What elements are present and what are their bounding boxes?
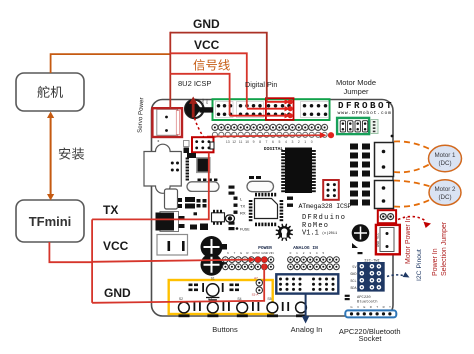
svg-text:APC220: APC220 — [357, 296, 371, 300]
DFROBOT logo — [338, 100, 392, 116]
wire: bottom bus vertical — [91, 219, 93, 302]
svg-text:R: R — [370, 305, 372, 309]
digital header pins group4 — [301, 102, 329, 118]
via column right of qfp — [229, 186, 294, 231]
svg-text:S2-A: S2-A — [252, 293, 259, 297]
svg-text:R: R — [383, 305, 385, 309]
red arrows onto digital pins — [230, 99, 293, 118]
wire: TX — [92, 153, 209, 220]
pin number silk under circle rows — [226, 140, 313, 144]
svg-text:DIGITAL: DIGITAL — [264, 146, 284, 152]
svg-text:11: 11 — [239, 140, 243, 144]
board silk text — [299, 203, 352, 238]
wire: GND bottom — [92, 264, 264, 303]
misc small parts left of 8U2 — [171, 141, 218, 182]
svg-text:VCC: VCC — [194, 38, 220, 52]
svg-text:SCL: SCL — [350, 280, 356, 284]
svg-text:TX: TX — [240, 204, 245, 209]
svg-text:VCC: VCC — [103, 239, 129, 253]
motor mode jumper green box — [337, 118, 393, 138]
svg-text:12: 12 — [232, 140, 236, 144]
right side transistor cluster 1 — [350, 144, 370, 177]
electrolytic cap near servo power — [185, 100, 213, 118]
gear logo — [276, 224, 293, 241]
svg-text:Selection Jumper: Selection Jumper — [441, 221, 448, 276]
power+analog pin center dots — [224, 259, 337, 268]
svg-text:Motor 1: Motor 1 — [435, 152, 457, 159]
svg-text:4: 4 — [285, 140, 287, 144]
label 信号线 (signal wire) — [193, 59, 229, 70]
buttons yellow box — [169, 280, 273, 314]
motor terminal block 1 — [375, 143, 394, 177]
svg-text:8: 8 — [259, 140, 261, 144]
wire: tfmini stub — [49, 242, 92, 262]
svg-text:5: 5 — [278, 140, 280, 144]
silk GND VCC labels left of digital header — [202, 98, 209, 104]
svg-text:(DC): (DC) — [438, 194, 451, 201]
svg-text:E: E — [363, 305, 365, 309]
wire: VCC top red — [170, 53, 247, 108]
motor power jumper red box (small) — [378, 210, 396, 223]
label 舵机 (servo) — [37, 86, 63, 98]
svg-text:Motor Power In: Motor Power In — [405, 216, 412, 264]
svg-text:Power In: Power In — [432, 248, 439, 276]
svg-text:Jumper: Jumper — [343, 87, 369, 96]
digital header pins group1 — [216, 102, 234, 118]
digital header pins group2 — [237, 102, 264, 118]
QFP chip outline — [249, 193, 283, 226]
svg-text:VIN: VIN — [269, 251, 274, 255]
svg-text:S1: S1 — [211, 277, 215, 281]
red highlight box on digital pins — [266, 98, 294, 120]
svg-text:G: G — [350, 305, 352, 309]
svg-text:I2C Pinout: I2C Pinout — [416, 249, 423, 281]
svg-text:13: 13 — [226, 140, 230, 144]
svg-text:GND VCC: GND VCC — [377, 233, 381, 247]
I2C header navy box — [350, 252, 384, 291]
power pin tiny labels — [227, 251, 324, 255]
wire: signal line red to board — [170, 74, 229, 115]
TX RX L leds silk — [234, 197, 246, 216]
svg-text:GND: GND — [350, 273, 356, 277]
svg-text:FUSE: FUSE — [240, 228, 250, 232]
ATmega328 ICSP red header — [323, 180, 339, 200]
svg-text:T: T — [389, 305, 391, 309]
female header circle row B (digital) — [212, 132, 327, 137]
svg-text:1: 1 — [304, 140, 306, 144]
svg-text:GND: GND — [261, 251, 269, 255]
svg-text:S3: S3 — [208, 297, 212, 301]
servo box 舵机 — [16, 73, 84, 111]
A7 / S2-A small circles — [252, 276, 263, 297]
svg-text:A7: A7 — [254, 276, 258, 280]
board outline — [152, 100, 394, 317]
svg-text:V1.1: V1.1 — [302, 230, 319, 238]
svg-text:SDA: SDA — [350, 287, 357, 291]
motor terminal block 2 — [375, 181, 394, 209]
svg-text:8U2 ICSP: 8U2 ICSP — [178, 79, 211, 88]
svg-text:V: V — [357, 305, 359, 309]
wire: GND top dark red — [170, 33, 266, 101]
svg-text:3: 3 — [291, 140, 293, 144]
motor power in red box (large) — [376, 225, 400, 254]
svg-text:2: 2 — [298, 140, 300, 144]
big ATmega328 smd chip — [281, 148, 316, 194]
analog in navy box — [276, 274, 338, 293]
svg-text:0: 0 — [311, 140, 313, 144]
caps row mid-left — [190, 212, 208, 230]
svg-text:10: 10 — [245, 140, 249, 144]
fiducial dots mid — [230, 227, 250, 231]
SOIC8 near TX corner — [212, 210, 225, 225]
svg-text:Socket: Socket — [359, 334, 383, 343]
buttons bottom row — [179, 297, 307, 317]
red dotted arrow power in selection — [398, 216, 425, 220]
electrolytic caps bottom-left pair — [201, 236, 228, 276]
svg-text:Bluetooth: Bluetooth — [357, 300, 378, 305]
parts left of S1 — [189, 283, 205, 292]
right side transistor cluster 2 — [350, 182, 370, 206]
svg-text:(DC): (DC) — [438, 160, 451, 167]
USB connector — [144, 140, 181, 193]
svg-text:Buttons: Buttons — [212, 325, 238, 334]
svg-text:TFmini: TFmini — [29, 214, 72, 229]
red filled power pins 5V GND — [255, 257, 261, 263]
svg-text:(c)2011: (c)2011 — [322, 231, 337, 236]
DC power jack — [157, 235, 188, 256]
wire: VCC bottom with arrow — [92, 260, 250, 262]
svg-text:RX: RX — [240, 211, 246, 216]
navy arrow Analog In — [305, 294, 307, 317]
crystal oval — [187, 176, 274, 192]
parts right of S1 — [222, 283, 239, 292]
svg-text:GND: GND — [193, 17, 220, 31]
label 安装 (mount) — [59, 147, 84, 159]
svg-text:S2: S2 — [179, 297, 183, 301]
8U2 ICSP red header (2x3) — [192, 137, 214, 152]
female header circle row A (digital) — [212, 124, 328, 130]
svg-text:6: 6 — [272, 140, 274, 144]
orange dashed leaders to motors — [394, 141, 432, 206]
svg-text:DFRduino: DFRduino — [302, 214, 345, 222]
big power transistor — [156, 212, 185, 232]
female header row A center dots — [214, 126, 326, 128]
APC220 silk — [357, 296, 378, 305]
digital header pins group3 (highlighted) — [267, 104, 291, 116]
svg-text:TX: TX — [103, 203, 118, 217]
8U2 icsp red arrow + dotted leader — [189, 97, 204, 138]
digital header green box — [213, 99, 330, 120]
wire: servo signal orange from box top — [51, 54, 170, 73]
svg-text:VCC: VCC — [206, 99, 209, 104]
electrolytic cap right — [352, 224, 370, 248]
TFmini box — [16, 200, 84, 242]
voltage regulator — [165, 153, 207, 209]
APC220 socket blue — [345, 305, 396, 317]
8U2 usb chip — [197, 158, 210, 173]
motor 2 circle — [429, 180, 461, 205]
svg-text:7: 7 — [266, 140, 268, 144]
svg-text:ATmega328 ICSP: ATmega328 ICSP — [299, 203, 352, 210]
svg-text:Digital Pin: Digital Pin — [245, 80, 277, 89]
servo power red box — [152, 108, 182, 137]
svg-text:Motor Mode: Motor Mode — [336, 78, 376, 87]
label Power In Selection Jumper (rotated) — [432, 221, 448, 276]
orange double arrow between boxes — [47, 112, 54, 201]
small cap pair right — [226, 215, 235, 222]
navy dashed arrow I2C — [387, 275, 405, 277]
svg-text:T: T — [376, 305, 378, 309]
wire: vertical bundle bus top — [169, 32, 171, 108]
svg-text:S5: S5 — [267, 297, 271, 301]
motor 1 circle — [429, 145, 462, 171]
svg-text:9: 9 — [253, 140, 255, 144]
svg-text:Motor 2: Motor 2 — [435, 186, 457, 193]
wire: TX continuation to RX pin with arrow — [207, 132, 334, 138]
svg-text:Analog In: Analog In — [291, 325, 323, 334]
svg-text:5V: 5V — [256, 251, 260, 255]
svg-text:GND: GND — [104, 286, 131, 300]
button S1 top — [206, 277, 219, 300]
svg-text:www.DFRobot.com: www.DFRobot.com — [338, 110, 392, 116]
small pads left of APC220 silk — [345, 295, 350, 301]
power+analog female pin rows — [223, 257, 340, 270]
